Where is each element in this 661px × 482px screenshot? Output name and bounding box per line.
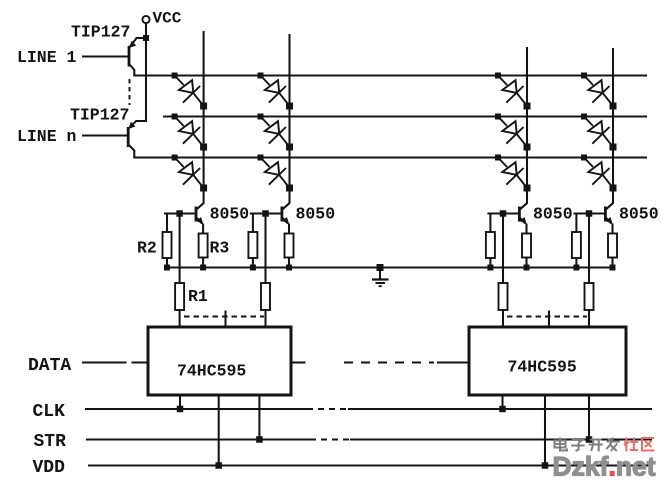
svg-text:R3: R3 [210,239,230,258]
svg-text:8050: 8050 [533,205,573,224]
svg-text:74HC595: 74HC595 [177,362,246,381]
svg-text:TIP127: TIP127 [70,106,129,125]
svg-text:VCC: VCC [153,10,182,28]
svg-text:R2: R2 [137,239,157,258]
svg-text:TIP127: TIP127 [71,23,130,42]
svg-text:8050: 8050 [210,205,250,224]
svg-text:LINE n: LINE n [17,127,76,146]
svg-text:DATA: DATA [28,356,71,376]
svg-text:VDD: VDD [33,458,66,477]
svg-text:Dzkf.net: Dzkf.net [553,452,656,478]
svg-text:CLK: CLK [33,402,66,422]
svg-text:LINE 1: LINE 1 [17,48,77,67]
svg-text:8050: 8050 [619,205,659,224]
svg-text:74HC595: 74HC595 [508,358,577,377]
svg-text:8050: 8050 [296,205,336,224]
svg-text:R1: R1 [188,287,208,306]
svg-text:STR: STR [34,432,67,452]
